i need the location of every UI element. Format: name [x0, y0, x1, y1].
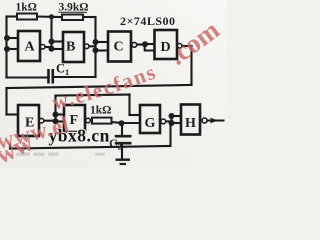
- svg-text:G: G: [145, 116, 156, 131]
- node B output upper: [93, 39, 99, 45]
- wire: R3 right lead to node: [112, 122, 122, 123]
- svg-text:B: B: [66, 40, 75, 55]
- node A output lower: [49, 46, 55, 52]
- wire: node to F input lower: [56, 120, 65, 122]
- gate H (NAND): [181, 105, 207, 135]
- gate A (NAND): [18, 31, 45, 61]
- node A input upper: [4, 35, 10, 41]
- wire: feedback down left edge: [5, 88, 7, 115]
- wire: node to B input lower: [52, 48, 64, 50]
- capacitor C1: [49, 69, 53, 84]
- node G output lower: [169, 120, 175, 126]
- wire: right vertical B-output net: [94, 17, 96, 77]
- wire: node to F input upper: [56, 113, 65, 115]
- gate E (NAND): [18, 105, 44, 136]
- ground: [116, 160, 131, 164]
- node E output lower: [53, 118, 59, 124]
- wire: H output line: [207, 119, 224, 121]
- wire: 1k left lead: [7, 15, 18, 17]
- gate C (NAND): [108, 32, 137, 62]
- wire: feedback vertical down: [190, 46, 192, 85]
- wire: node to C input upper: [96, 41, 109, 43]
- wire: bottom rail: [10, 146, 171, 149]
- resistor R3 1kOhm: [92, 118, 112, 124]
- gate F (NAND): [64, 105, 90, 132]
- wire: C1 right lead: [54, 76, 96, 78]
- resistor R2 3.9kOhm: [62, 15, 83, 21]
- wire: long feedback horizontal to left: [7, 85, 192, 88]
- node G output upper: [169, 113, 175, 119]
- wire: A input lower: [7, 48, 19, 50]
- wire: node to G input lower: [122, 122, 141, 124]
- svg-text:1kΩ: 1kΩ: [16, 2, 37, 14]
- wire: A output to node: [45, 46, 52, 48]
- svg-text:1kΩ: 1kΩ: [90, 105, 111, 117]
- wire: node to B input upper: [52, 40, 64, 42]
- wire: G-H node vertical: [170, 116, 172, 123]
- wire: C1 left lead: [7, 76, 48, 78]
- wire: node to D input upper: [145, 43, 155, 45]
- svg-text:A: A: [25, 40, 36, 55]
- junction node at R1/R2: [49, 14, 54, 19]
- wire: D output feedback right: [182, 45, 192, 47]
- capacitor C2: [115, 136, 132, 143]
- wire: node to C input lower: [96, 49, 109, 51]
- node A input lower: [4, 46, 10, 52]
- gate D (NAND): [155, 30, 183, 59]
- wire: B output to node: [89, 45, 96, 47]
- wire: E-out node vertical: [54, 96, 56, 122]
- resistor R1 1kOhm: [17, 14, 37, 20]
- wire: line B horizontal: [56, 95, 130, 96]
- wire: C output to node: [137, 43, 145, 45]
- wire: node to H input lower: [172, 122, 182, 124]
- output arrow after H: [211, 118, 219, 123]
- node A output upper: [49, 39, 55, 45]
- node B output lower: [93, 47, 99, 53]
- wire: node down to bottom rail: [169, 123, 171, 146]
- wire: G output to node: [166, 120, 172, 122]
- node R3 / C2: [119, 120, 125, 126]
- svg-text:C: C: [114, 40, 124, 55]
- svg-text:2×74LS00: 2×74LS00: [120, 14, 176, 28]
- node E output upper: [53, 112, 59, 118]
- svg-text:3.9kΩ: 3.9kΩ: [59, 2, 89, 14]
- gate G (NAND): [140, 105, 166, 133]
- wire: line B corner down: [128, 95, 130, 116]
- wire: node to H input upper: [172, 115, 182, 117]
- scan smudge under bottom rail: [16, 153, 105, 157]
- wire: 1k right lead to node: [37, 15, 62, 18]
- wire: to G input upper: [130, 114, 141, 116]
- wire: E input: [7, 113, 19, 115]
- node C output: [142, 41, 148, 47]
- wire: F output to R3: [90, 119, 92, 121]
- wire: C2 stem through rail: [121, 145, 123, 160]
- underline under 3.9k label: [59, 11, 88, 13]
- wire: 3.9k right lead: [83, 16, 96, 18]
- wire: node jog to D input lower: [145, 45, 155, 51]
- wire: bottom rail left tick: [9, 145, 11, 149]
- wire: node down to A output rail: [50, 17, 52, 50]
- gate B (NAND): [63, 32, 89, 62]
- svg-text:H: H: [185, 116, 196, 131]
- wire: left vertical A-input net: [5, 17, 7, 78]
- wire: A input upper: [7, 37, 19, 39]
- wire: E output to node: [44, 120, 56, 122]
- wire: node down to C2: [121, 123, 123, 135]
